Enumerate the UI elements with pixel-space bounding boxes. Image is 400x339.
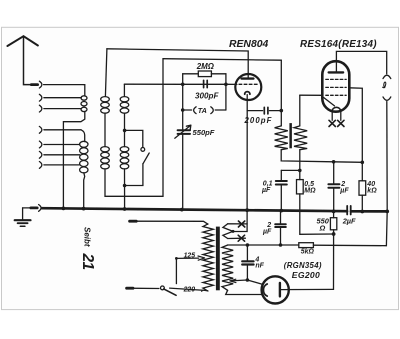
svg-text:v: v (201, 288, 204, 293)
svg-text:2MΩ: 2MΩ (196, 62, 214, 71)
svg-text:(RGN354): (RGN354) (284, 261, 322, 270)
svg-text:Seibt: Seibt (83, 227, 92, 247)
svg-text:µF: µF (339, 188, 349, 195)
svg-text:5kΩ: 5kΩ (301, 248, 315, 255)
svg-text:550pF: 550pF (193, 128, 215, 137)
svg-text:200pF: 200pF (244, 116, 273, 125)
svg-text:Ω: Ω (319, 223, 326, 232)
svg-text:EG200: EG200 (292, 270, 320, 280)
svg-text:RES164(RE134): RES164(RE134) (300, 39, 377, 50)
svg-text:125: 125 (184, 252, 196, 259)
svg-text:MΩ: MΩ (304, 188, 316, 195)
svg-text:220: 220 (183, 286, 196, 293)
svg-text:kΩ: kΩ (367, 188, 377, 195)
svg-text:21: 21 (79, 253, 96, 270)
svg-text:300pF: 300pF (195, 92, 219, 101)
svg-text:REN804: REN804 (229, 39, 268, 50)
svg-text:TA: TA (198, 106, 207, 115)
svg-text:2µF: 2µF (342, 216, 356, 225)
svg-text:µF: µF (262, 228, 272, 235)
svg-text:nF: nF (255, 263, 264, 270)
svg-text:µF: µF (261, 187, 271, 194)
